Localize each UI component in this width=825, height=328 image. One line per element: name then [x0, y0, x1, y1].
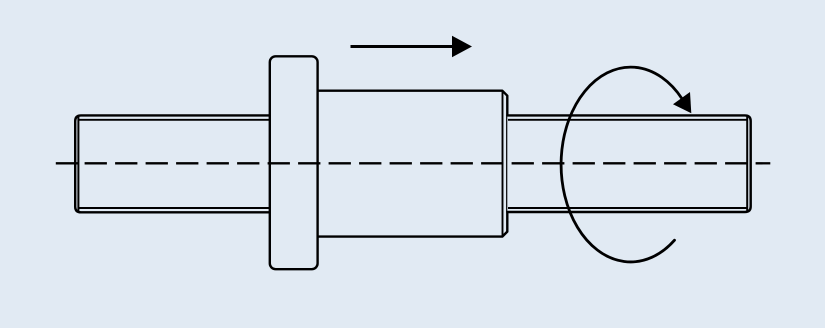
left shaft end face line: [77, 116, 79, 212]
right shaft thread root line top: [508, 119, 747, 121]
cylindrical body outer contour: [318, 91, 507, 237]
left shaft thread root line top: [79, 119, 270, 121]
rotation arrow head: [673, 92, 691, 113]
linear motion arrow shaft: [351, 45, 454, 48]
right shaft thread root line bottom: [508, 207, 747, 209]
flange: [270, 56, 318, 269]
right threaded shaft outer contour: [507, 115, 750, 212]
linear motion arrow head: [452, 36, 472, 58]
right shaft end face line: [746, 116, 748, 212]
left threaded shaft outer contour: [75, 115, 270, 212]
left shaft thread root line bottom: [79, 207, 270, 209]
centerline (dashed axis): [56, 162, 79, 164]
rotation arrow arc: [561, 67, 682, 262]
body end face line: [502, 91, 504, 236]
